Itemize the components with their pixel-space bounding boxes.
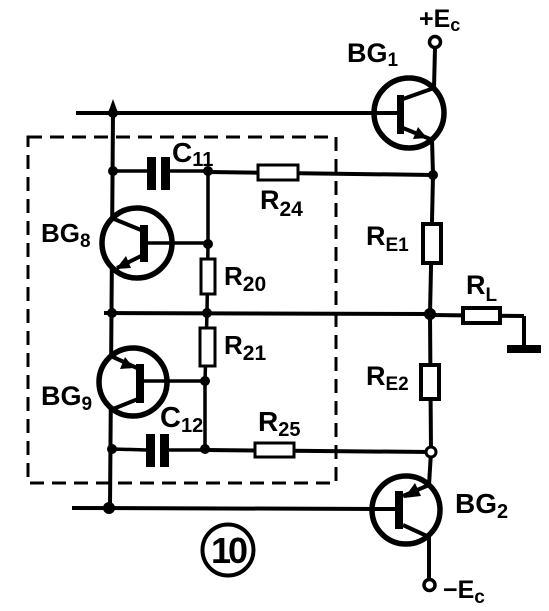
- svg-text:10: 10: [211, 530, 247, 571]
